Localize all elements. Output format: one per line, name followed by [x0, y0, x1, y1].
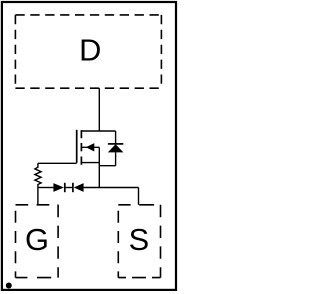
- svg-text:S: S: [129, 222, 150, 257]
- svg-text:G: G: [25, 222, 49, 257]
- svg-text:D: D: [79, 32, 101, 67]
